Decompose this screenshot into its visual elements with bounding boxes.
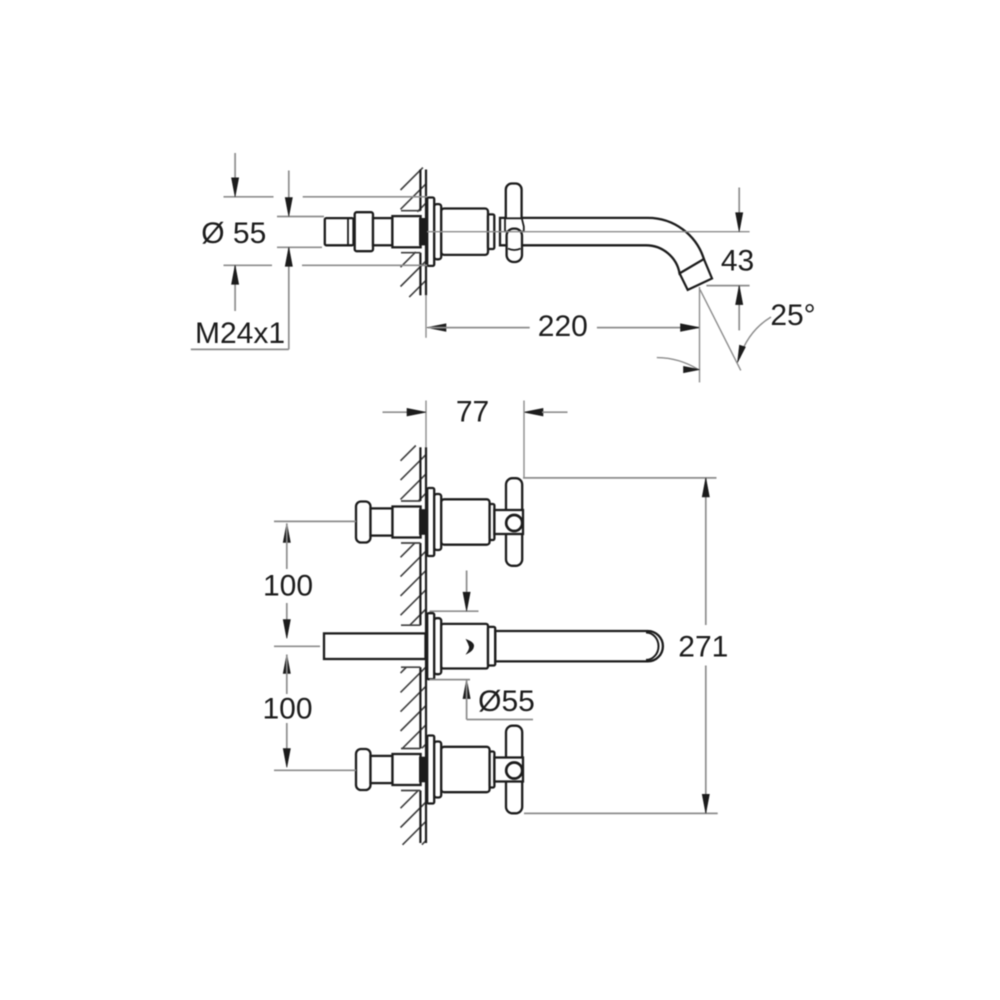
svg-text:100: 100 [263,570,313,603]
svg-text:Ø 55: Ø 55 [201,217,266,250]
svg-text:25°: 25° [770,299,815,332]
svg-text:43: 43 [721,245,754,278]
svg-text:271: 271 [678,630,728,663]
svg-text:77: 77 [456,396,489,429]
svg-text:Ø55: Ø55 [478,685,535,718]
svg-text:M24x1: M24x1 [195,317,285,350]
svg-text:220: 220 [538,310,588,343]
svg-text:100: 100 [262,693,312,726]
